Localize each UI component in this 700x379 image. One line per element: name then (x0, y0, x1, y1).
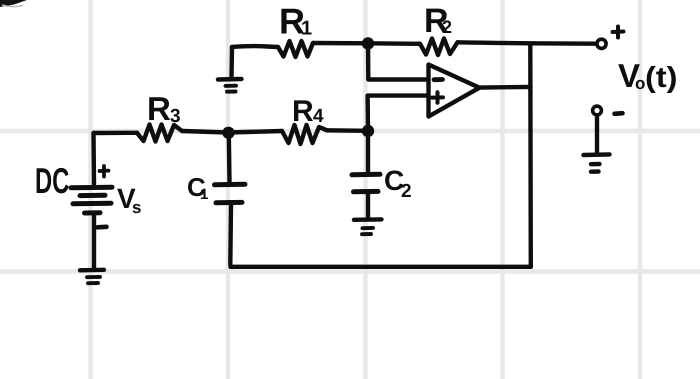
wire (R4 to node C) (327, 128, 368, 133)
grid horizontal lines (0, 131, 700, 272)
resistor R2 (420, 39, 458, 56)
plus sign at + terminal (613, 27, 624, 38)
op-amp inverting pin mark (434, 77, 443, 82)
ground (under battery) (80, 270, 104, 283)
wire (feedback vertical, output node down to bottom rail) (528, 44, 533, 267)
label R2 (426, 9, 451, 33)
wire (bottom rail) (231, 265, 531, 269)
wire (R2 to + terminal) (458, 42, 597, 43)
resistor R1 (278, 41, 313, 57)
op-amp U1 (429, 65, 480, 117)
label R1 (281, 9, 311, 35)
label Vs (117, 189, 141, 213)
wire (op-amp output) (480, 85, 531, 90)
stray pen stroke top-left corner (0, 0, 27, 7)
label C1 (188, 178, 208, 199)
resistor R3 (137, 125, 182, 142)
wire (non-inverting input to node C) (368, 96, 428, 131)
capacitor C1 (215, 133, 246, 265)
label R3 (149, 97, 180, 122)
plus sign at battery top (100, 166, 109, 177)
wire (minus terminal stub) (595, 116, 599, 154)
node B (R3/R4/C1 junction) (222, 127, 234, 139)
wire (ground stub to R1) (232, 44, 278, 49)
wire (node A to R2) (368, 41, 420, 46)
resistor R4 (282, 125, 327, 144)
ground (under minus terminal) (584, 154, 610, 171)
node A (R1/R2/inverting junction) (362, 37, 374, 49)
node C (R4/C2/non-inverting junction) (362, 125, 374, 137)
label R4 (294, 100, 323, 122)
ground (under R1 left wire) (218, 47, 242, 92)
op-amp non-inverting pin mark (432, 92, 443, 102)
terminal - (output) (593, 106, 602, 115)
terminal + (output) (597, 39, 606, 48)
label DC (37, 168, 69, 193)
capacitor C2 (352, 131, 380, 218)
minus sign at battery bottom (98, 225, 107, 230)
wire (node A down to inverting input) (368, 43, 428, 79)
grid vertical lines (91, 0, 641, 379)
wire (node B to R4) (229, 131, 283, 133)
battery Vs plates (71, 187, 112, 213)
battery wire bottom (92, 215, 96, 269)
minus sign at - terminal (615, 111, 623, 116)
wire (R3 to node B) (182, 131, 229, 133)
ground (under C2) (354, 219, 382, 234)
battery wire top (91, 133, 96, 184)
wire (Vs to R3) (94, 131, 138, 136)
label C2 (385, 170, 411, 197)
label Vo(t) (618, 64, 676, 93)
wire (R1 to node A) (313, 41, 368, 46)
